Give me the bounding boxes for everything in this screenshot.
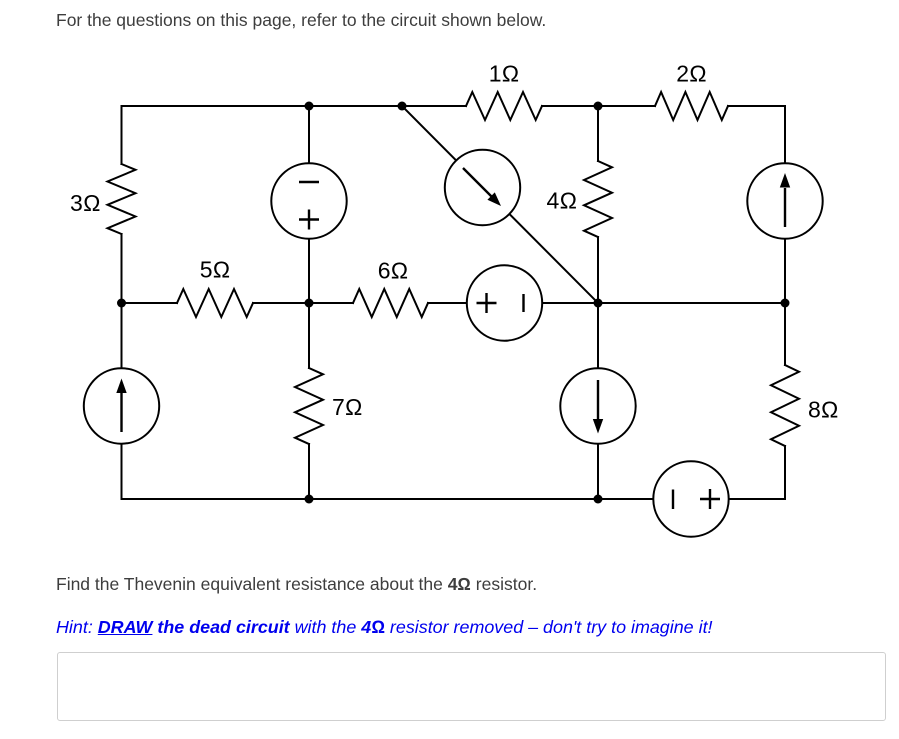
- voltage source V2 circle: [467, 265, 542, 340]
- wire middle column bottom: [308, 444, 310, 499]
- voltage source V2 minus-bar symbol: [522, 294, 524, 312]
- resistor R4 4ohm zigzag: [584, 161, 612, 237]
- resistor R5 5ohm zigzag: [177, 289, 253, 317]
- resistor R7 7ohm zigzag: [295, 368, 323, 444]
- label 2 ohm: [676, 61, 706, 87]
- wire middle rail left segment: [122, 302, 178, 304]
- node top-1: [305, 102, 314, 111]
- svg-text:6Ω: 6Ω: [378, 258, 408, 284]
- label 5 ohm: [200, 257, 230, 283]
- wire top rail right segment: [728, 105, 785, 107]
- svg-text:8Ω: 8Ω: [808, 397, 838, 423]
- voltage source V3 plus symbol: [700, 489, 720, 509]
- node middle-far-right: [781, 299, 790, 308]
- label 7 ohm: [332, 394, 362, 420]
- current source I1 diagonal circle: [445, 150, 520, 225]
- wire top rail middle segment: [542, 105, 655, 107]
- question text line: [56, 576, 537, 594]
- current source I3 arrow: [120, 393, 122, 432]
- voltage source V3 circle: [653, 461, 728, 536]
- wire right rail lower: [784, 446, 786, 499]
- label 4 ohm: [547, 188, 577, 214]
- svg-text:1Ω: 1Ω: [489, 61, 519, 87]
- svg-text:5Ω: 5Ω: [200, 257, 230, 283]
- wire 4ohm column lower: [597, 237, 599, 499]
- svg-text:4Ω: 4Ω: [547, 188, 577, 214]
- wire diagonal branch: [402, 106, 598, 303]
- wire right rail upper: [784, 106, 786, 365]
- label 3 ohm: [70, 190, 100, 216]
- wire middle rail third segment: [428, 302, 598, 304]
- node top-3: [594, 102, 603, 111]
- node middle-left: [117, 299, 126, 308]
- resistor R2 2ohm zigzag: [655, 92, 728, 120]
- wire middle rail second segment: [253, 302, 353, 304]
- node top-2 diagonal start: [398, 102, 407, 111]
- svg-text:7Ω: 7Ω: [332, 394, 362, 420]
- voltage source V3 minus-bar symbol: [672, 490, 674, 510]
- node bottom-2: [594, 495, 603, 504]
- current source I2 right circle: [747, 163, 822, 238]
- resistor R6 6ohm zigzag: [353, 289, 428, 317]
- voltage source V1 circle: [271, 163, 346, 238]
- node middle-right: [594, 299, 603, 308]
- label 8 ohm: [808, 397, 838, 423]
- wire middle rail right segment: [598, 302, 785, 304]
- wire 4ohm column upper: [597, 106, 599, 161]
- voltage source V1 plus symbol: [299, 210, 319, 230]
- svg-text:3Ω: 3Ω: [70, 190, 100, 216]
- label 6 ohm: [378, 258, 408, 284]
- current source I1 arrow: [463, 168, 492, 197]
- current source I2 arrow: [784, 188, 786, 227]
- label 1 ohm: [489, 61, 519, 87]
- answer box: [57, 652, 886, 721]
- current source I3 left circle: [84, 368, 159, 443]
- voltage source V1 minus symbol: [299, 181, 319, 183]
- svg-text:2Ω: 2Ω: [676, 61, 706, 87]
- resistor R1 1ohm zigzag: [466, 92, 542, 120]
- node middle-center: [305, 299, 314, 308]
- instruction text line: [56, 12, 546, 30]
- wire middle column upper: [308, 106, 310, 303]
- current source I4 middle-down circle: [560, 368, 635, 443]
- wire left rail upper: [121, 106, 123, 164]
- wire top rail left segment: [122, 105, 467, 107]
- current source I4 arrow: [597, 380, 599, 419]
- voltage source V2 plus symbol: [477, 293, 497, 313]
- wire middle column lower: [308, 303, 310, 368]
- resistor R8 8ohm zigzag: [771, 365, 799, 446]
- node bottom-1: [305, 495, 314, 504]
- resistor R3 3ohm zigzag: [108, 164, 136, 234]
- wire bottom rail: [122, 498, 786, 500]
- wire left rail lower: [121, 234, 123, 499]
- hint text line: [56, 619, 713, 637]
